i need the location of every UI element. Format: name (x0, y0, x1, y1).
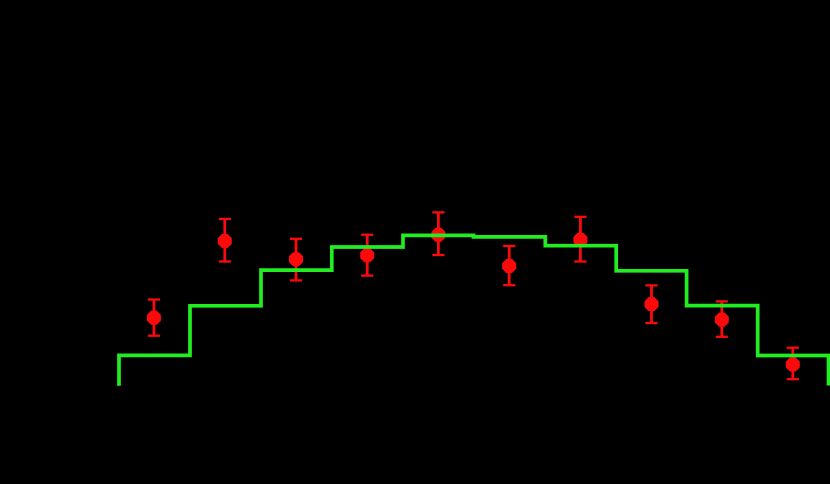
data point 3 marker (289, 252, 303, 266)
data point 10 marker (786, 358, 800, 372)
data point 1 error bar (148, 300, 160, 336)
data point 1 marker (147, 311, 161, 325)
data point 5 marker (431, 228, 445, 242)
data point 9 marker (715, 313, 729, 327)
histogram step line (119, 235, 829, 385)
data point 10 error bar (787, 348, 799, 380)
data point 8 marker (645, 297, 659, 311)
data point 7 error bar (574, 217, 586, 262)
data point 8 error bar (645, 285, 657, 323)
data point 6 marker (502, 259, 516, 273)
data point 2 marker (218, 234, 232, 248)
data point 6 error bar (503, 246, 515, 285)
data point 4 marker (360, 248, 374, 262)
data point 3 error bar (290, 239, 302, 281)
data point 7 marker (573, 233, 587, 247)
data point 9 error bar (716, 301, 728, 336)
data point 5 error bar (432, 212, 444, 255)
data point 2 error bar (219, 219, 231, 262)
data point 4 error bar (361, 235, 373, 276)
